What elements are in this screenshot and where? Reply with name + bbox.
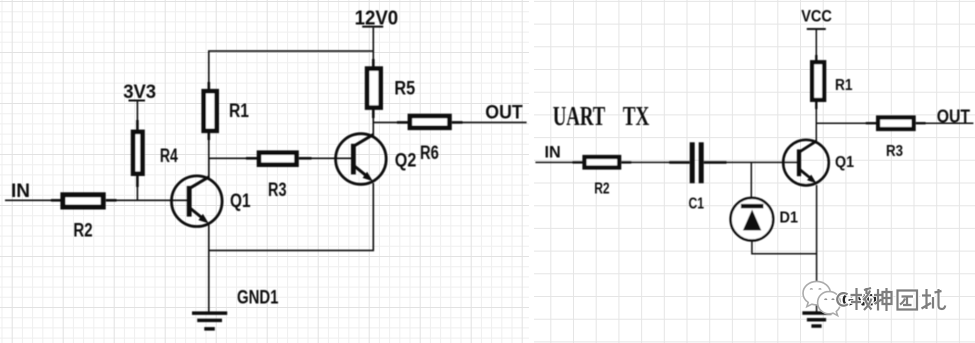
wire collector node to R3 bbox=[209, 157, 247, 159]
net label 3V3 bbox=[123, 82, 156, 103]
wire R2 to C1 bbox=[631, 161, 670, 163]
wire 3V3 to R4 bbox=[136, 102, 138, 122]
wire 12V0 rail to R1 top bbox=[209, 51, 373, 83]
svg-text:Q1: Q1 bbox=[835, 154, 854, 171]
label R6 bbox=[420, 143, 439, 164]
net label OUT bbox=[485, 102, 522, 124]
svg-text:R2: R2 bbox=[594, 181, 609, 198]
svg-text:R1: R1 bbox=[229, 101, 249, 122]
resistor R1 (right) bbox=[812, 55, 824, 109]
resistor R6 bbox=[397, 116, 463, 128]
net label OUT (right) bbox=[937, 106, 971, 127]
resistor R5 bbox=[367, 59, 381, 118]
wire R3 to Q2 base bbox=[311, 157, 351, 159]
svg-text:OUT: OUT bbox=[485, 102, 522, 124]
svg-text:R6: R6 bbox=[420, 143, 439, 164]
svg-text:D1: D1 bbox=[780, 210, 799, 227]
svg-text:R3: R3 bbox=[886, 143, 903, 160]
wire base node down to D1 bbox=[750, 162, 752, 198]
wire 12V0 down to R5 bbox=[372, 28, 374, 60]
label Q1 bbox=[230, 191, 251, 212]
wire R6 to OUT bbox=[462, 121, 527, 123]
wire R5 bottom to collector node Q2 bbox=[372, 117, 374, 138]
svg-text:UART: UART bbox=[553, 101, 606, 131]
grid backgrounds (decorative) bbox=[0, 0, 529, 343]
wire IN to R2 bbox=[5, 199, 52, 201]
resistor R2 bbox=[51, 195, 117, 207]
svg-text:TX: TX bbox=[623, 101, 650, 131]
label R1 (right) bbox=[835, 77, 853, 94]
label C1 bbox=[689, 195, 705, 212]
wire D1 bottom to emitter column bbox=[752, 241, 817, 254]
resistor R1 bbox=[204, 82, 217, 140]
power bar 3V3 bbox=[129, 100, 146, 102]
net label IN bbox=[11, 181, 30, 202]
svg-text:OUT: OUT bbox=[937, 106, 971, 127]
label D1 bbox=[780, 210, 799, 227]
wire R4 to base node bbox=[136, 186, 138, 200]
svg-text:GND1: GND1 bbox=[237, 288, 279, 309]
resistor R3 (right) bbox=[866, 118, 926, 130]
title UART TX bbox=[553, 101, 650, 131]
label Q1 (right) bbox=[835, 154, 854, 171]
svg-text:Q1: Q1 bbox=[230, 191, 251, 212]
label R5 bbox=[394, 79, 415, 100]
ground GND1 bbox=[192, 311, 227, 330]
transistor Q1 bbox=[172, 176, 223, 227]
wire IN to R2 (right) bbox=[535, 161, 573, 163]
resistor R2 (right) bbox=[573, 157, 632, 168]
wire collector node to R6 bbox=[373, 121, 398, 123]
wire collector node to R3 (right) bbox=[816, 122, 866, 124]
net label 12V0 bbox=[355, 7, 399, 29]
label R3 bbox=[268, 180, 287, 201]
label Q2 bbox=[395, 151, 417, 172]
wire R1 bottom to collector node bbox=[208, 139, 210, 179]
ground (right) bbox=[802, 311, 831, 328]
svg-text:R3: R3 bbox=[268, 180, 287, 201]
power bar 12V0 bbox=[362, 26, 383, 28]
wire Q1 emitter to ground (right) bbox=[816, 185, 818, 312]
capacitor C1 bbox=[669, 142, 726, 183]
label GND1 bbox=[237, 288, 279, 309]
wire emitter bus to Q2 emitter bbox=[209, 183, 373, 250]
transistor Q2 bbox=[336, 134, 387, 185]
label R2 (right) bbox=[594, 181, 609, 198]
transistor Q1 (right) bbox=[783, 140, 829, 186]
net label VCC bbox=[801, 7, 832, 25]
svg-text:R5: R5 bbox=[394, 79, 415, 100]
wire Q1 collector stub bbox=[208, 158, 210, 178]
wire R1 bottom to collector node (right) bbox=[815, 108, 817, 144]
resistor R3 bbox=[246, 153, 312, 165]
wire R3 to OUT (right) bbox=[925, 122, 973, 124]
diode D1 bbox=[731, 198, 774, 241]
label R3 (right) bbox=[886, 143, 903, 160]
label R1 bbox=[229, 101, 249, 122]
svg-text:VCC: VCC bbox=[801, 7, 832, 25]
svg-text:R4: R4 bbox=[160, 146, 178, 167]
svg-text:R1: R1 bbox=[835, 77, 853, 94]
watermark WeChat logo bbox=[803, 281, 840, 315]
label R2 bbox=[73, 221, 92, 242]
watermark text 牧神园地 bbox=[837, 288, 945, 311]
svg-text:IN: IN bbox=[11, 181, 30, 202]
wire C1 to Q1 base (right) bbox=[726, 161, 797, 163]
wire Q1 emitter to ground bbox=[208, 224, 210, 313]
svg-text:C1: C1 bbox=[689, 195, 705, 212]
wire R2 to Q1 base bbox=[116, 199, 188, 201]
svg-text:Q2: Q2 bbox=[395, 151, 417, 172]
label GND (behind watermark) bbox=[842, 292, 877, 310]
label R4 bbox=[160, 146, 178, 167]
wire VCC to R1 (right) bbox=[815, 30, 817, 56]
net label IN (right) bbox=[545, 143, 561, 161]
svg-text:IN: IN bbox=[545, 143, 561, 161]
svg-text:R2: R2 bbox=[73, 221, 92, 242]
power bar VCC bbox=[807, 28, 826, 30]
resistor R4 bbox=[133, 120, 142, 187]
